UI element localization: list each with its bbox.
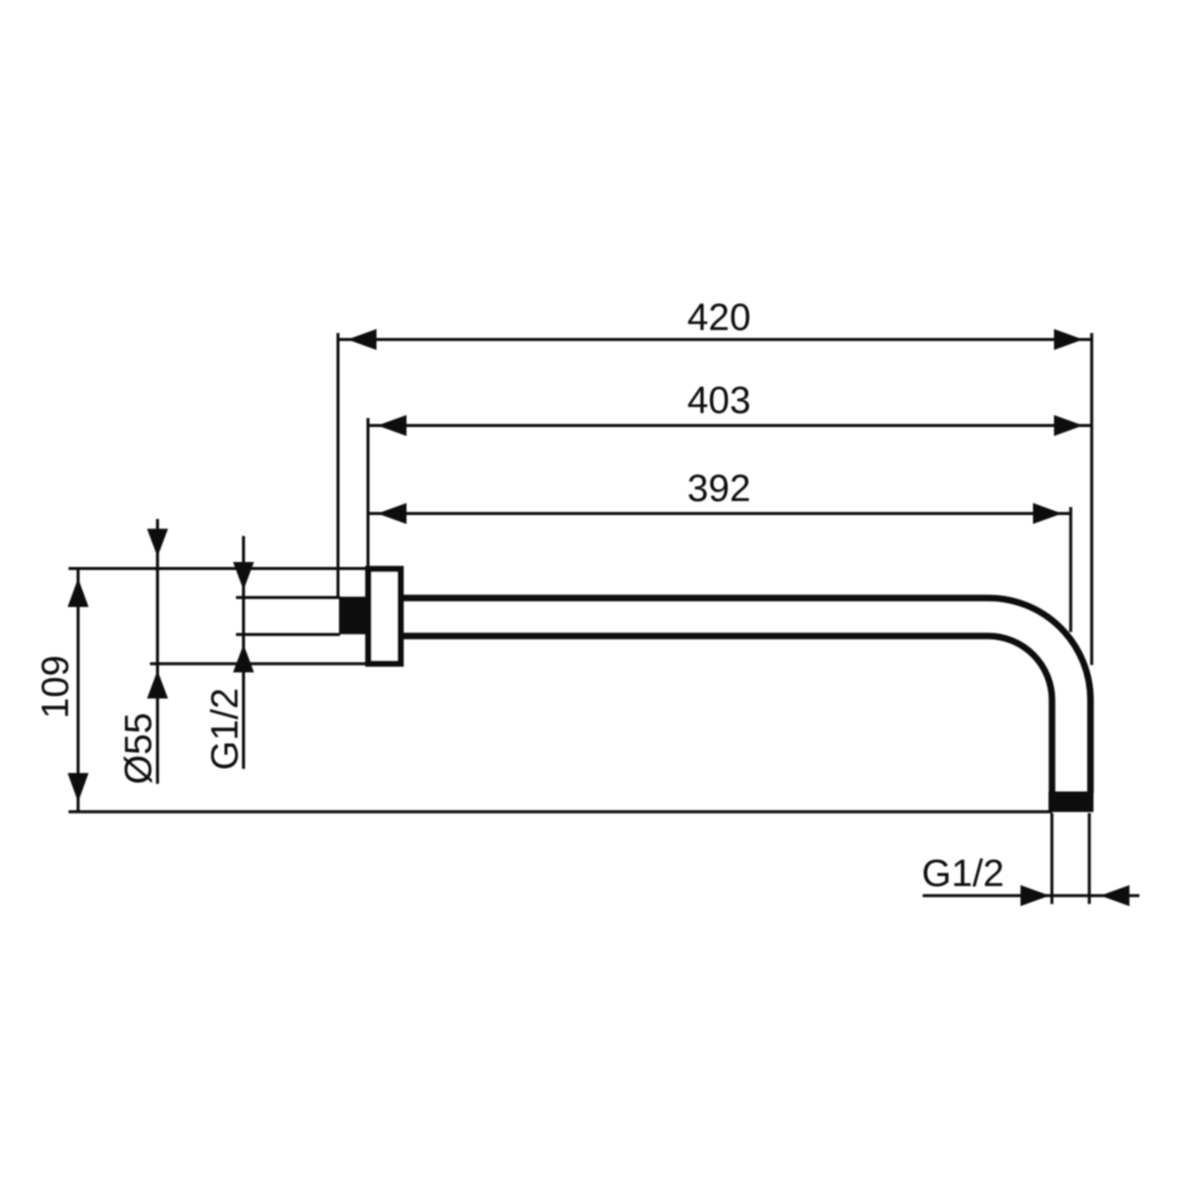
ref line: flange top extended left [69,567,367,570]
ref line: bottom of arm outlet extended left [69,810,1053,813]
dimension line G1/2 bottom (horizontal) [923,894,1140,897]
arrowhead 109 bottom [68,773,89,802]
extension line: 420/403 right [1090,333,1093,665]
arrowhead G1/2 bottom pointing left [1100,885,1129,906]
extension line: outlet thread right [1088,813,1091,904]
extension line: 403/392 left [367,418,370,569]
svg-text:G1/2: G1/2 [922,853,1004,895]
dimension line 392 [368,512,1071,515]
svg-text:392: 392 [687,468,750,510]
arrowhead 392 right [1033,503,1062,524]
wall flange plate [368,569,400,664]
outlet thread (black) [1049,792,1094,813]
threaded inlet stub (black) [339,597,366,635]
extension line: outlet thread left [1050,813,1053,904]
arrowhead Ø55 down [147,529,168,557]
dimension line G1/2 left (vertical) [242,536,245,769]
dimension line Ø55 (vertical) [156,519,159,784]
svg-text:G1/2: G1/2 [204,688,246,770]
ref line: stub bottom extended left [236,633,340,636]
svg-text:403: 403 [687,380,750,422]
shower arm pipe bottom/inner edge [400,636,1052,793]
dimension line 420 [338,338,1092,341]
arrowhead 420 left [348,329,377,350]
shower arm pipe top/outer edge [400,598,1091,793]
arrowhead G1/2 left down [233,562,254,590]
extension line: 420 left [337,333,340,597]
arrowhead 392 left [378,503,407,524]
arrowhead 403 left [378,415,407,436]
svg-text:420: 420 [687,297,750,339]
dimension line 403 [368,424,1092,427]
svg-text:Ø55: Ø55 [118,713,160,785]
arrowhead 420 right [1054,329,1083,350]
arrowhead G1/2 left up [233,644,254,672]
ref line: stub top extended left [236,596,340,599]
arrowhead Ø55 up [147,671,168,699]
arrowhead 109 top [68,578,89,607]
arrowhead 403 right [1054,415,1083,436]
dimension line 109 (vertical) [77,569,80,812]
arrowhead G1/2 bottom pointing right [1021,885,1050,906]
extension line: 392 right [1069,507,1072,632]
ref line: flange bottom extended left [150,662,366,665]
svg-text:109: 109 [35,655,77,718]
